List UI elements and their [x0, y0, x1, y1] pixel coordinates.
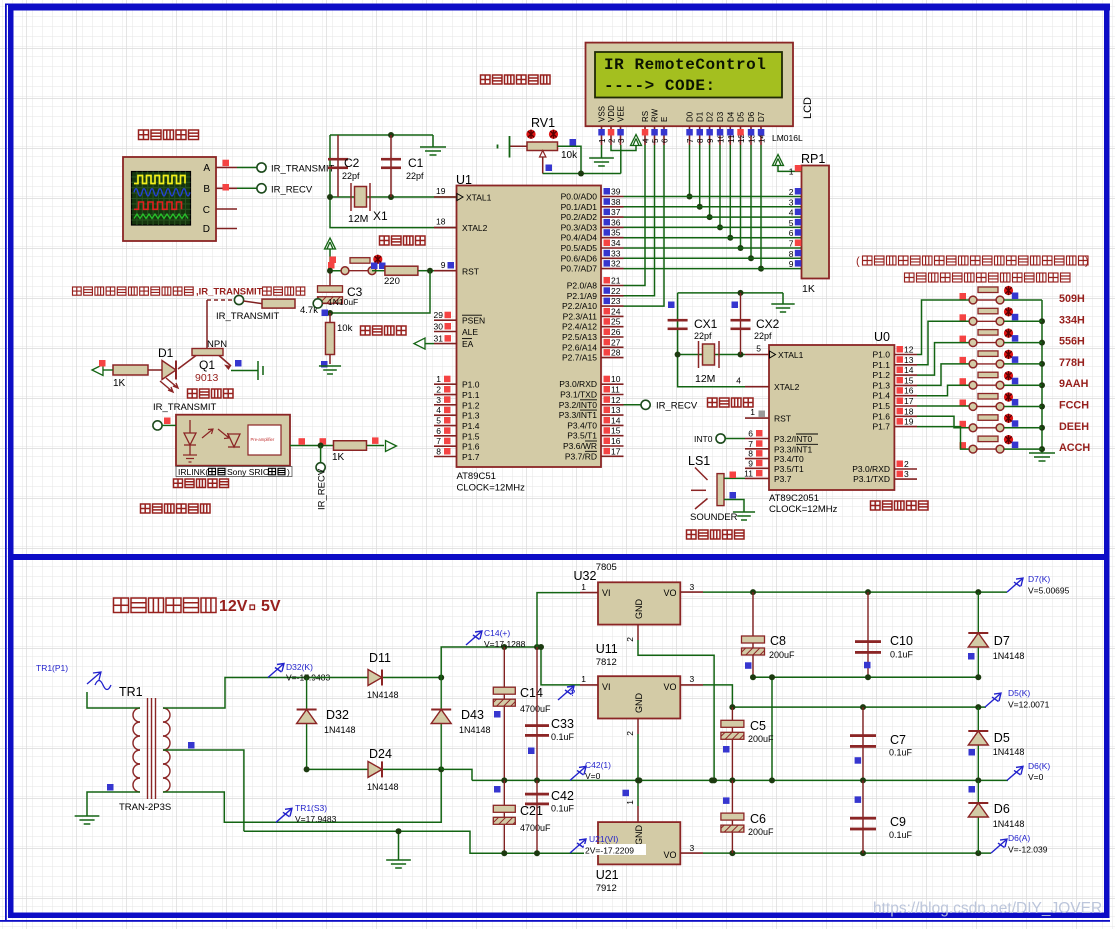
svg-text:15: 15 — [611, 426, 621, 436]
RP1 pin 1 — [773, 155, 784, 166]
svg-text:P0.6/AD6: P0.6/AD6 — [561, 253, 598, 263]
IRLINK photodiode symbols — [189, 420, 191, 433]
svg-text:D3: D3 — [716, 111, 725, 122]
svg-text:3: 3 — [789, 197, 794, 207]
svg-text:Q1: Q1 — [199, 358, 215, 372]
svg-text:D6(K): D6(K) — [1028, 761, 1050, 771]
U1 pin XTAL2 — [434, 227, 457, 229]
capacitor C3 (electrolytic) — [329, 271, 331, 291]
RV1 wiper arrow — [540, 151, 546, 158]
LCD body LM016L — [586, 43, 794, 127]
svg-text:D32(K): D32(K) — [286, 662, 313, 672]
svg-text:9: 9 — [789, 259, 794, 269]
svg-text:https://blog.csdn.net/DIY_JOVE: https://blog.csdn.net/DIY_JOVER — [873, 900, 1102, 917]
svg-text:1: 1 — [750, 407, 755, 417]
svg-text:ACCH: ACCH — [1059, 442, 1090, 454]
svg-text:VEE: VEE — [617, 106, 626, 122]
oscilloscope screen — [132, 172, 191, 226]
RV1 body — [527, 142, 558, 151]
svg-text:4700uF: 4700uF — [520, 704, 551, 714]
U1 pins P3.0-P3.7 (right) — [601, 383, 624, 385]
scope waveform green — [134, 214, 188, 219]
transformer TR1 — [133, 698, 170, 799]
svg-text:LS1: LS1 — [688, 454, 710, 468]
svg-text:C21: C21 — [520, 804, 543, 818]
svg-text:V=0: V=0 — [1028, 772, 1044, 782]
secondary top wire — [163, 678, 307, 709]
capacitor C9 — [862, 780, 864, 853]
scope pin D stub — [216, 228, 237, 230]
svg-text:509H: 509H — [1059, 293, 1085, 305]
svg-text:200uF: 200uF — [748, 827, 774, 837]
svg-text:C42(1): C42(1) — [585, 760, 611, 770]
svg-text:P3.1/TXD: P3.1/TXD — [853, 474, 890, 484]
svg-text:C2: C2 — [344, 156, 360, 170]
scope pin A wire — [216, 167, 237, 169]
IRLINK module body — [176, 415, 290, 466]
push button FCCH — [969, 394, 1004, 411]
svg-text:P1.7: P1.7 — [462, 452, 480, 462]
label 红外接收头 — [174, 479, 229, 488]
P0 bus horizontal wires to RP1 — [624, 196, 802, 198]
small ground (emitter) — [258, 361, 263, 380]
svg-text:0.1uF: 0.1uF — [551, 804, 575, 814]
svg-text:P1.1: P1.1 — [873, 360, 891, 370]
svg-text:): ) — [287, 467, 290, 477]
svg-text:IR RemoteControl: IR RemoteControl — [604, 56, 766, 74]
U0 XTAL1 row wire — [678, 354, 745, 356]
dashed wire IR_TRANSMIT to base — [207, 299, 234, 301]
svg-text:4700uF: 4700uF — [520, 823, 551, 833]
svg-text:5V: 5V — [261, 598, 281, 615]
svg-text:C6: C6 — [750, 812, 766, 826]
crystal X2 (U0) — [703, 344, 715, 365]
RV1 right wire to VEE — [558, 146, 582, 173]
svg-text:C5: C5 — [750, 719, 766, 733]
ground symbol (crystal top) — [432, 135, 434, 147]
svg-text:TR1: TR1 — [119, 685, 143, 699]
svg-text:P0.2/AD2: P0.2/AD2 — [561, 212, 598, 222]
svg-text:5: 5 — [789, 218, 794, 228]
svg-text:P2.4/A12: P2.4/A12 — [562, 322, 597, 332]
diode D7 — [977, 592, 979, 677]
svg-text:RST: RST — [462, 267, 479, 277]
svg-text:2: 2 — [608, 138, 617, 143]
primary top wire — [87, 692, 140, 708]
svg-text:13: 13 — [611, 405, 621, 415]
button column wires right rail — [1041, 300, 1043, 453]
riser 5V subrail to ground rail — [771, 677, 773, 780]
push button 9AAH — [969, 372, 1004, 389]
svg-text:5: 5 — [756, 344, 761, 354]
svg-text:18: 18 — [436, 217, 446, 227]
U11 pin 1 — [580, 684, 598, 686]
svg-text:8: 8 — [748, 449, 753, 459]
svg-text:3: 3 — [436, 395, 441, 405]
scope waveform blue — [134, 189, 190, 196]
svg-text:P3.2/INT0: P3.2/INT0 — [774, 434, 813, 444]
svg-text:VDD: VDD — [607, 105, 616, 122]
+5V rail — [703, 591, 1007, 593]
mid rail to ground rail jog — [441, 769, 472, 780]
svg-text:P1.1: P1.1 — [462, 390, 480, 400]
+12V rail — [703, 685, 986, 707]
secondary center tap wire — [163, 750, 244, 831]
svg-text:VO: VO — [664, 588, 677, 598]
svg-text:8: 8 — [789, 249, 794, 259]
svg-text:2V=-17.2209: 2V=-17.2209 — [585, 846, 634, 856]
svg-text:CLOCK=12MHz: CLOCK=12MHz — [457, 483, 526, 494]
svg-text:X1: X1 — [373, 209, 388, 223]
svg-text:E: E — [660, 117, 669, 122]
svg-text:P2.0/A8: P2.0/A8 — [567, 281, 598, 291]
svg-text:0.1uF: 0.1uF — [890, 650, 914, 660]
svg-text:1: 1 — [625, 800, 635, 805]
svg-text:VI: VI — [602, 682, 611, 692]
svg-text:P1.5: P1.5 — [873, 401, 891, 411]
crystal module label 晶振模块 — [380, 236, 426, 245]
svg-text:1N4148: 1N4148 — [993, 651, 1025, 661]
svg-text:556H: 556H — [1059, 336, 1085, 348]
IRLINK input terminal — [153, 421, 162, 430]
svg-text:22pf: 22pf — [342, 171, 360, 181]
svg-text:IR_RECV: IR_RECV — [271, 184, 313, 195]
svg-text:D24: D24 — [369, 747, 392, 761]
reset module label 复位模块 — [361, 326, 407, 335]
wire XTAL1 row — [330, 196, 456, 198]
scope pin indicator squares — [223, 160, 230, 167]
U21 pin 2 (top GND) — [637, 806, 639, 822]
U0 pin XTAL2 (4) — [745, 386, 769, 388]
wire 4.7k term to node — [322, 302, 330, 304]
U0 left pins P3.2-P3.7 — [745, 438, 769, 440]
svg-text:P2.6/A14: P2.6/A14 — [562, 342, 597, 352]
junction dots crystal — [327, 194, 333, 200]
svg-text:P2.1/A9: P2.1/A9 — [567, 291, 598, 301]
svg-text:778H: 778H — [1059, 357, 1085, 369]
svg-text:4: 4 — [436, 405, 441, 415]
U0 pin RST (1) — [745, 417, 769, 419]
diode D32 — [306, 678, 308, 770]
resistor 4.7k — [262, 299, 295, 308]
svg-text:D1: D1 — [696, 111, 705, 122]
U11 pin 3 — [680, 684, 703, 686]
LCD screen — [595, 52, 782, 98]
junction C3 node — [327, 310, 333, 316]
svg-text:RST: RST — [774, 414, 791, 424]
capacitor C10 — [867, 592, 869, 677]
svg-text:P3.7: P3.7 — [774, 474, 792, 484]
svg-text:SOUNDER: SOUNDER — [690, 512, 738, 523]
svg-text:A: A — [203, 163, 210, 174]
svg-text:P3.2/INT0: P3.2/INT0 — [559, 400, 598, 410]
U21 7912 body — [598, 822, 680, 864]
svg-text:200uF: 200uF — [769, 650, 795, 660]
svg-text:7805: 7805 — [596, 562, 617, 573]
svg-text:28: 28 — [611, 348, 621, 358]
scope pin B wire — [216, 187, 237, 189]
secondary bottom wire — [163, 769, 441, 822]
svg-text:D6: D6 — [747, 111, 756, 122]
svg-text:VI: VI — [602, 588, 611, 598]
svg-text:0.1uF: 0.1uF — [551, 732, 575, 742]
svg-text:IR_TRANSMIT: IR_TRANSMIT — [216, 311, 280, 322]
svg-text:3: 3 — [690, 582, 695, 592]
reset button squares — [330, 257, 337, 264]
svg-text:25: 25 — [611, 317, 621, 327]
svg-text:4: 4 — [789, 208, 794, 218]
svg-text:TR1(S3): TR1(S3) — [295, 803, 327, 813]
svg-text:26: 26 — [611, 327, 621, 337]
svg-text:18: 18 — [904, 406, 914, 416]
svg-text:34: 34 — [611, 238, 621, 248]
raw+ rail — [441, 647, 537, 678]
svg-text:P1.2: P1.2 — [462, 400, 480, 410]
svg-text:P3.3/INT1: P3.3/INT1 — [559, 410, 598, 420]
svg-text:30: 30 — [434, 322, 444, 332]
reset module: power arrow — [325, 238, 336, 249]
U0 AT89C2051 body — [769, 345, 894, 490]
svg-text:7: 7 — [436, 436, 441, 446]
svg-text:D2: D2 — [706, 111, 715, 122]
svg-text:7: 7 — [789, 239, 794, 249]
diode D43 — [440, 678, 442, 770]
terminal arrow right (IRLINK out) — [367, 445, 384, 447]
svg-text:12: 12 — [611, 395, 621, 405]
diode D6 — [977, 780, 979, 853]
svg-text:U21(VI): U21(VI) — [589, 834, 618, 844]
svg-text:CX2: CX2 — [756, 317, 780, 331]
U0 right pins P1.0-P1.7 — [894, 354, 917, 356]
IRLINK output wire — [290, 445, 334, 447]
terminal IR_RECV (scope B) — [257, 184, 266, 193]
capacitor C5 — [731, 707, 733, 780]
svg-text:22pf: 22pf — [694, 331, 712, 341]
svg-text:D5: D5 — [994, 731, 1010, 745]
svg-text:P3.4/T0: P3.4/T0 — [567, 420, 597, 430]
svg-text:V=17.9483: V=17.9483 — [295, 814, 337, 824]
svg-text:D1: D1 — [158, 346, 174, 360]
transistor Q1 base bar — [192, 349, 223, 356]
svg-text:P2.5/A13: P2.5/A13 — [562, 332, 597, 342]
svg-text:P1.4: P1.4 — [873, 391, 891, 401]
svg-text:4: 4 — [736, 376, 741, 386]
RP1 body — [802, 166, 830, 279]
svg-text:32: 32 — [611, 259, 621, 269]
svg-text:0.1uF: 0.1uF — [889, 748, 913, 758]
svg-text:1: 1 — [598, 138, 607, 143]
svg-text:): ) — [1085, 256, 1089, 268]
note text 实物电路中虚线保持连接,IR_TRANSMIT端子删除 — [73, 287, 194, 295]
wire RST to C3 node — [330, 271, 430, 313]
svg-text:U11: U11 — [596, 642, 618, 656]
RV1 left battery symbol — [510, 145, 527, 147]
svg-text:1: 1 — [581, 582, 586, 592]
svg-text:33: 33 — [611, 248, 621, 258]
push button DEEH — [969, 415, 1004, 432]
svg-text:P3.4/T0: P3.4/T0 — [774, 454, 804, 464]
svg-text:334H: 334H — [1059, 314, 1085, 326]
ground rail V=0 — [472, 779, 1008, 781]
svg-text:7912: 7912 — [596, 883, 617, 894]
svg-text:RP1: RP1 — [801, 152, 825, 166]
svg-text:P1.2: P1.2 — [873, 370, 891, 380]
svg-text:D: D — [203, 224, 210, 235]
probe D32(K) — [268, 664, 284, 678]
svg-text:P3.3/INT1: P3.3/INT1 — [774, 444, 813, 454]
svg-text:9: 9 — [748, 458, 753, 468]
U0 crystal verticals — [678, 293, 769, 387]
svg-text:P3.7/RD: P3.7/RD — [565, 451, 597, 461]
svg-text:LM016L: LM016L — [772, 133, 803, 143]
svg-text:1N4148: 1N4148 — [367, 782, 399, 792]
svg-text:7: 7 — [748, 439, 753, 449]
U1 AT89C51 body — [457, 186, 602, 468]
IR emission arrows — [160, 378, 178, 392]
svg-text:6: 6 — [789, 228, 794, 238]
svg-text:,IR_TRANSMIT: ,IR_TRANSMIT — [196, 287, 263, 298]
capacitor C6 — [731, 780, 733, 853]
U0 right pins P3.0 P3.1 — [894, 468, 917, 470]
svg-text:38: 38 — [611, 197, 621, 207]
label IRLINK(Sony SRIC) — [176, 467, 292, 477]
svg-text:1: 1 — [436, 374, 441, 384]
svg-text:D43: D43 — [461, 708, 484, 722]
ground (sounder) — [733, 512, 755, 520]
svg-text:B: B — [203, 184, 210, 195]
U1 pins P0.0-P0.7 (right) — [601, 196, 624, 198]
capacitor C7 — [862, 707, 864, 780]
svg-text:P0.3/AD3: P0.3/AD3 — [561, 222, 598, 232]
LCD display label 液晶显示模块 — [481, 75, 551, 84]
svg-text:VO: VO — [664, 850, 677, 860]
capacitor C8 — [752, 592, 754, 677]
svg-text:9AAH: 9AAH — [1059, 378, 1089, 390]
svg-text:C10: C10 — [890, 634, 913, 648]
probe C42(1) — [570, 766, 586, 780]
svg-text:10k: 10k — [561, 150, 578, 161]
svg-text:P3.0/RXD: P3.0/RXD — [559, 379, 597, 389]
svg-text:14: 14 — [904, 365, 914, 375]
diode D24 — [368, 761, 382, 777]
probe U21(VI) — [570, 839, 586, 853]
capacitor C33 — [536, 647, 538, 780]
probe D6(A) — [991, 839, 1007, 853]
svg-text:C14: C14 — [520, 686, 543, 700]
svg-text:35: 35 — [611, 228, 621, 238]
svg-text:2: 2 — [625, 731, 635, 736]
svg-text:VSS: VSS — [598, 106, 607, 122]
svg-text:200uF: 200uF — [748, 734, 774, 744]
resistor 10k vertical (reset) — [329, 313, 331, 322]
svg-text:V=12.0071: V=12.0071 — [1008, 700, 1050, 710]
U1 pins P2.0-P2.7 (right) — [601, 285, 624, 287]
transistor Q1 collector — [178, 356, 196, 370]
U0 crystal top wire — [678, 292, 783, 294]
svg-text:9: 9 — [441, 260, 446, 270]
svg-text:U21: U21 — [596, 868, 619, 882]
svg-text:11: 11 — [611, 385, 620, 395]
svg-text:CX1: CX1 — [694, 317, 718, 331]
mid AC rail — [307, 768, 368, 770]
capacitor C21 — [503, 780, 505, 853]
svg-text:29: 29 — [434, 310, 444, 320]
svg-text:23: 23 — [611, 296, 621, 306]
riser to U11 VI — [541, 647, 580, 685]
probe ? (U11 VI) — [558, 686, 574, 700]
IRLINK amplifier box — [248, 425, 281, 455]
capacitor CX2 — [740, 293, 742, 355]
U1 pins P1.0-P1.7 — [434, 383, 457, 385]
svg-text:1N4148: 1N4148 — [993, 819, 1025, 829]
svg-text:XTAL1: XTAL1 — [466, 193, 492, 203]
svg-text:Sony SRIC: Sony SRIC — [227, 467, 269, 477]
label 红外发送端 — [871, 501, 929, 510]
oscilloscope module label 示波器模块 — [139, 130, 199, 140]
svg-text:P1.5: P1.5 — [462, 431, 480, 441]
svg-text:D5(K): D5(K) — [1008, 688, 1030, 698]
probe TR1(S3) — [276, 808, 292, 822]
svg-text:11: 11 — [744, 468, 753, 478]
wire D1 to 1K — [148, 369, 162, 371]
transistor Q1 emitter with arrow — [219, 356, 231, 367]
scope waveform yellow — [134, 176, 185, 184]
svg-text:RV1: RV1 — [531, 116, 555, 130]
svg-text:D5: D5 — [737, 111, 746, 122]
capacitor C42 — [536, 780, 538, 853]
svg-text:1N10uF: 1N10uF — [328, 297, 358, 307]
RV1 X marks — [526, 130, 535, 139]
svg-text:P0.1/AD1: P0.1/AD1 — [561, 202, 598, 212]
svg-text:P2.7/A15: P2.7/A15 — [562, 353, 597, 363]
ground (primary) — [75, 816, 100, 824]
terminal IR_TRANSMIT (scope A) — [257, 163, 266, 172]
svg-text:C42: C42 — [551, 789, 574, 803]
svg-text:D7: D7 — [757, 111, 766, 122]
svg-text:XTAL1: XTAL1 — [778, 350, 804, 360]
svg-text:V=5.00695: V=5.00695 — [1028, 586, 1070, 596]
sounder wires — [724, 477, 745, 479]
resistor 1K (IRLINK) — [334, 441, 367, 451]
U32 pin 3 — [680, 591, 703, 593]
svg-text:9: 9 — [706, 138, 715, 143]
wire XTAL2 left vertical — [330, 135, 456, 228]
-12V rail — [703, 852, 991, 854]
svg-text:GND: GND — [634, 599, 644, 620]
ground (U0 crystal) — [782, 293, 784, 304]
svg-text:V=-12.039: V=-12.039 — [1008, 845, 1048, 855]
svg-text:P3.0/RXD: P3.0/RXD — [852, 464, 890, 474]
svg-text:1: 1 — [789, 167, 794, 177]
LCD pin stubs and numbers — [601, 126, 603, 145]
svg-text:IRLINK(: IRLINK( — [178, 467, 208, 477]
svg-text:P3.5/T1: P3.5/T1 — [774, 464, 804, 474]
svg-text:P0.4/AD4: P0.4/AD4 — [561, 233, 598, 243]
U32 7805 body — [598, 582, 680, 624]
label 晶振模块 (U0) — [708, 398, 754, 407]
LCD VEE wire — [620, 145, 622, 174]
svg-text:RW: RW — [651, 108, 660, 122]
svg-text:D0: D0 — [686, 111, 695, 122]
svg-text:24: 24 — [611, 306, 621, 316]
svg-text:22pf: 22pf — [406, 171, 424, 181]
U32 pin 2 GND — [637, 625, 639, 640]
svg-text:P1.6: P1.6 — [873, 411, 891, 421]
svg-text:2: 2 — [789, 187, 794, 197]
terminal IR_RECV at U1 P3.2 — [624, 404, 642, 406]
label 蜂鸣器电路 — [687, 530, 745, 539]
button wires to U0 pins — [917, 300, 969, 355]
